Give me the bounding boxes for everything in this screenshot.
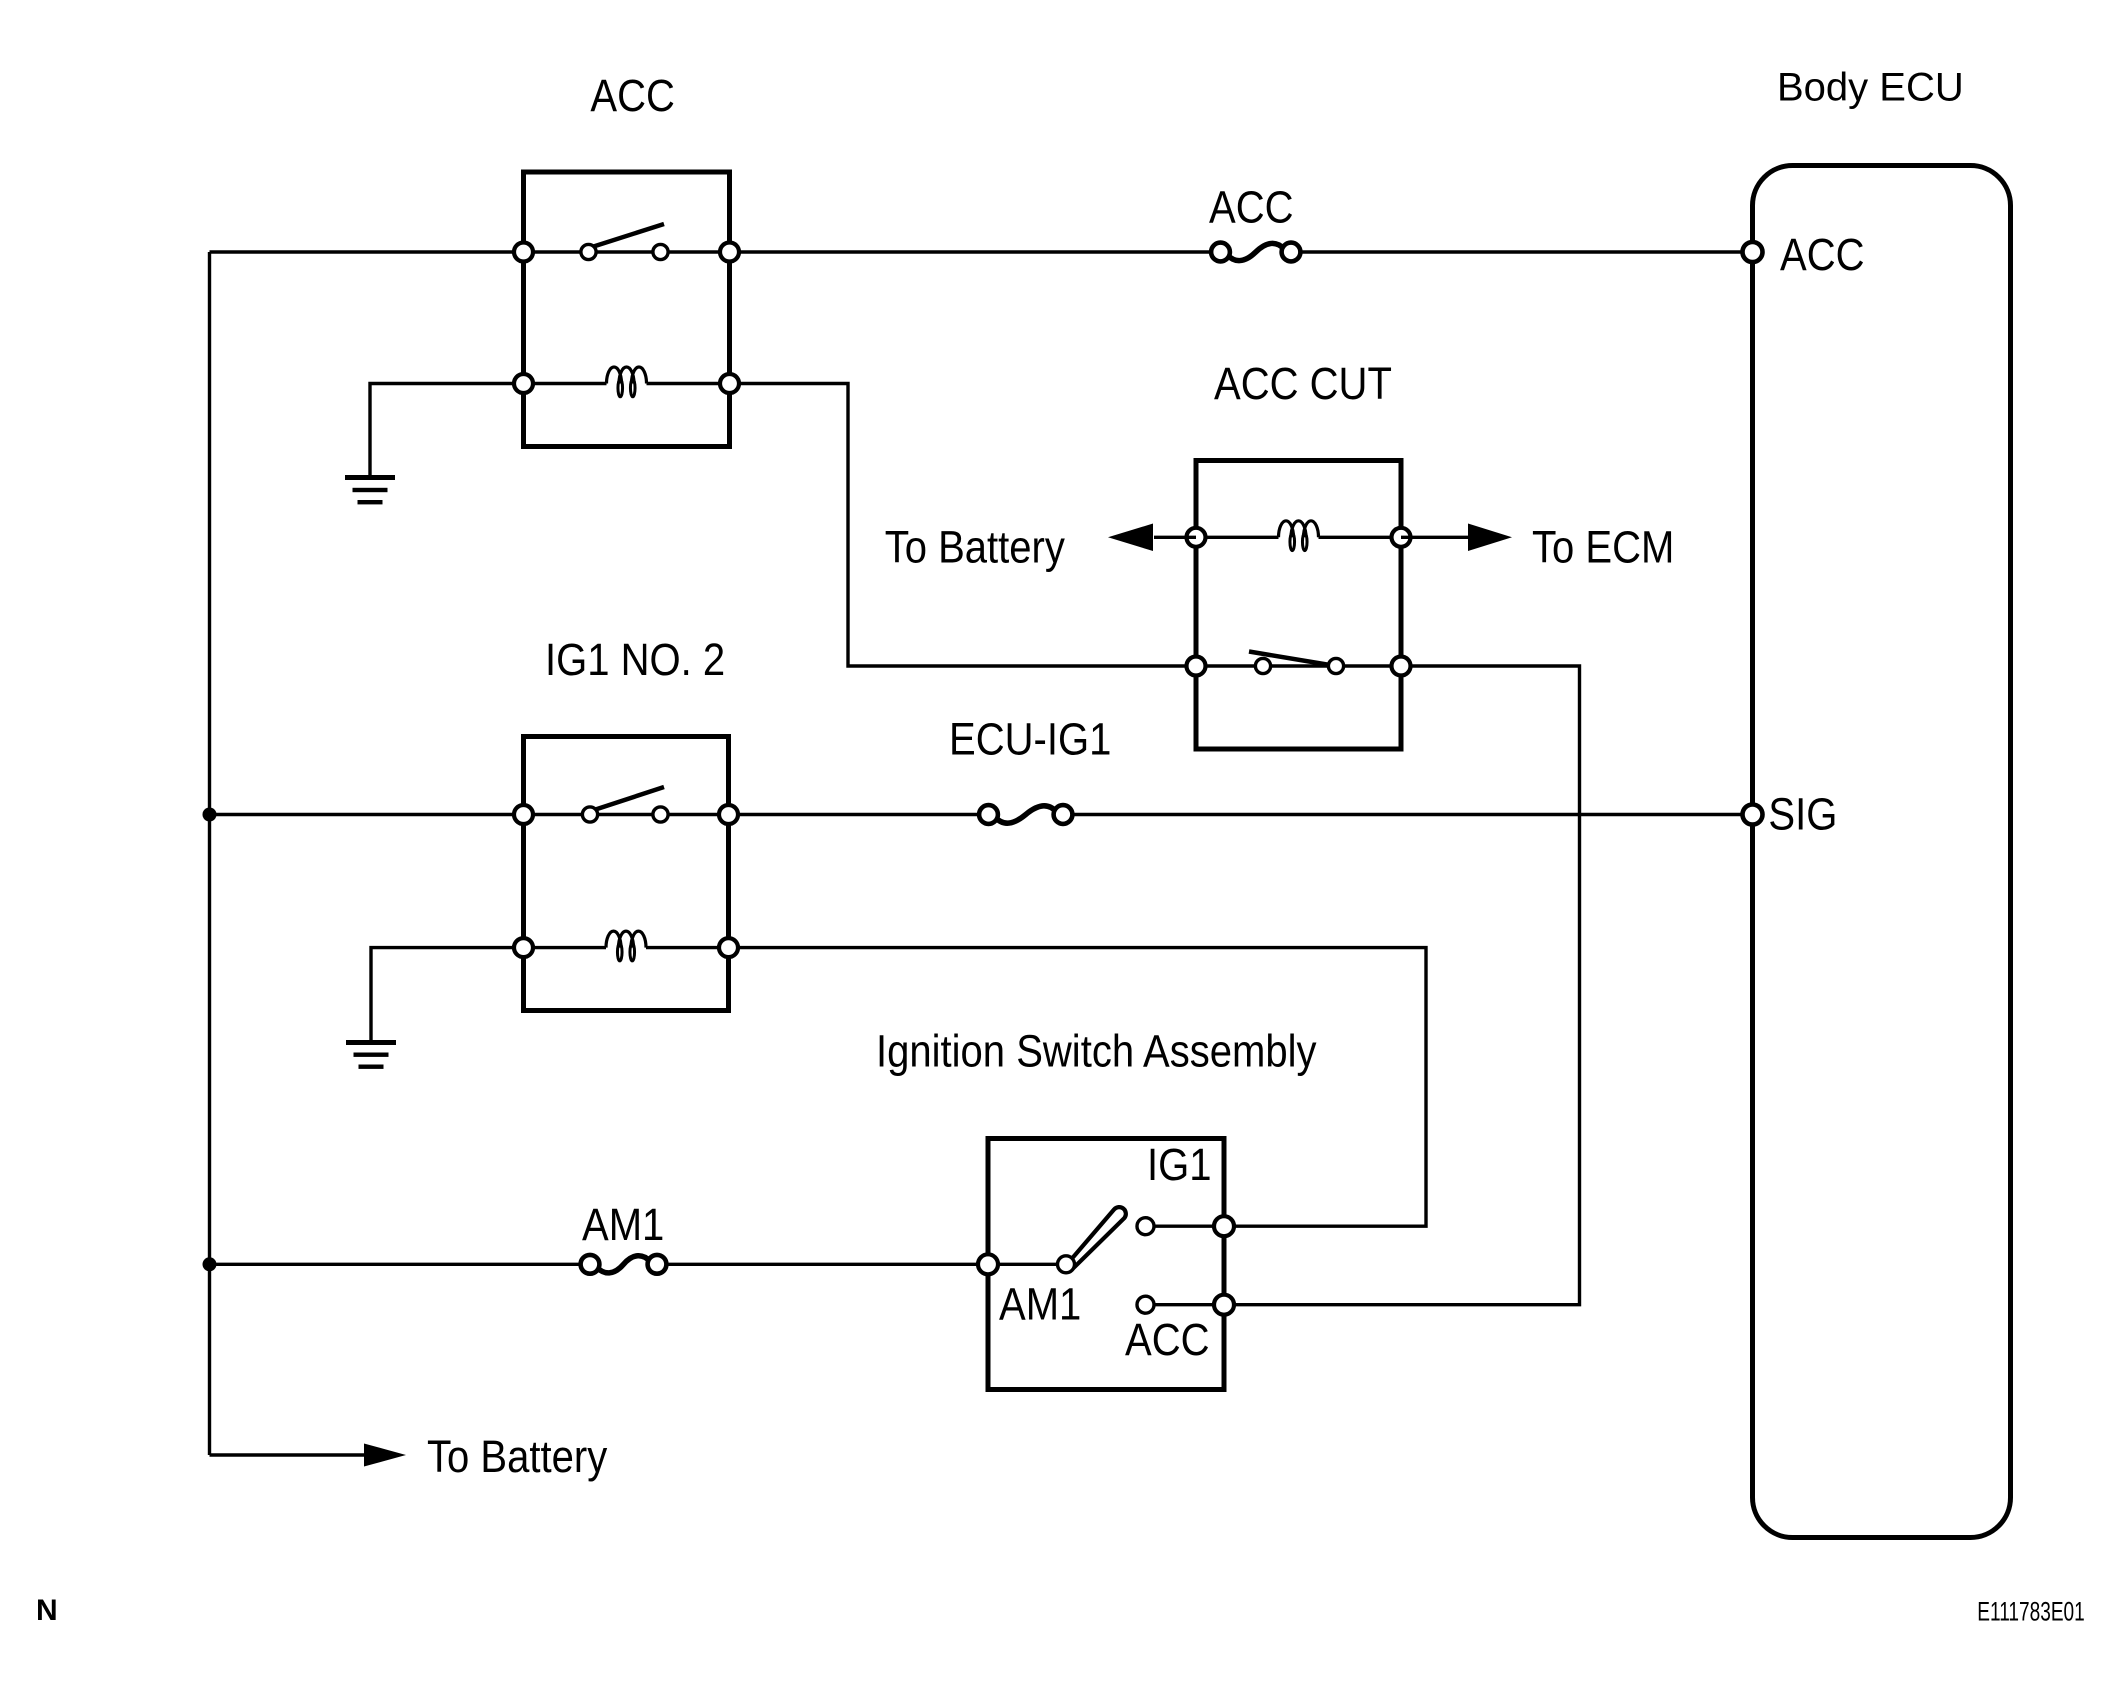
Body ECU: box [1753, 166, 2011, 1538]
relay ACC CUT: terminal coil-left [1187, 528, 1206, 547]
svg-text:ACC: ACC [1125, 1315, 1210, 1366]
wire: SIG line from IG1 NO. 2 relay to ECU-IG1 fuse [729, 813, 980, 816]
relay ACC: box [524, 172, 730, 447]
svg-text:ECU-IG1: ECU-IG1 [949, 714, 1111, 765]
relay IG1 NO. 2: box [524, 737, 729, 1011]
relay ACC: switch contact right [653, 244, 668, 259]
relay ACC CUT: terminal switch-right [1392, 657, 1411, 676]
svg-text:Body ECU: Body ECU [1777, 66, 1964, 110]
svg-text:AM1: AM1 [582, 1200, 664, 1251]
relay ACC: terminal top-left [514, 243, 533, 262]
ignition switch: ACC terminal [1214, 1295, 1234, 1315]
relay ACC: switch blade [592, 224, 664, 247]
label: ECU-IG1 fuse [949, 714, 1111, 765]
label: ACC CUT relay title [1214, 359, 1392, 410]
ignition switch: AM1 contact [1058, 1256, 1075, 1273]
Body ECU: ACC pin [1743, 242, 1763, 262]
label: IG1 pin (ignition switch) [1147, 1140, 1212, 1191]
label: AM1 pin (ignition switch) [999, 1279, 1081, 1330]
ignition switch: IG1 contact wire [1146, 1224, 1225, 1227]
label: To Battery (bottom) [427, 1432, 608, 1483]
wire: left battery bus vertical [208, 252, 211, 1455]
wire: IG1 NO. 2 relay coil to ignition switch IG1 terminal [729, 948, 1427, 1227]
ignition switch assembly: box [988, 1139, 1224, 1390]
wire: ACC relay coil to ground [370, 384, 524, 477]
relay IG1 NO. 2: terminal switch-left [514, 805, 533, 824]
arrow: To Battery (ACC CUT coil left) [1108, 524, 1196, 552]
svg-text:To Battery: To Battery [885, 522, 1066, 573]
label: SIG pin (Body ECU) [1768, 789, 1837, 840]
svg-text:IG1: IG1 [1147, 1140, 1212, 1191]
svg-text:ACC: ACC [590, 71, 675, 122]
label: To ECM [1532, 522, 1674, 573]
relay ACC: terminal coil-left [514, 374, 533, 393]
fuse ECU-IG1: element [979, 805, 1072, 824]
wire: AM1 fuse to ignition switch AM1 terminal [667, 1263, 989, 1266]
relay ACC: coil [607, 367, 647, 397]
svg-text:IG1 NO. 2: IG1 NO. 2 [545, 635, 725, 686]
relay ACC CUT: terminal switch-left [1187, 657, 1206, 676]
ignition switch: ACC contact wire [1146, 1303, 1225, 1306]
relay IG1 NO. 2: switch contact left [582, 807, 597, 822]
relay ACC CUT: coil wire inside [1196, 536, 1401, 539]
relay IG1 NO. 2: terminal switch-right [719, 805, 738, 824]
wire: SIG line from ECU-IG1 fuse to Body ECU SIG pin [1072, 813, 1753, 816]
label: IG1 NO. 2 relay title [545, 635, 725, 686]
ignition switch: lever [1069, 1207, 1126, 1267]
svg-text:SIG: SIG [1768, 789, 1837, 840]
label: ACC fuse [1209, 182, 1294, 233]
relay IG1 NO. 2: terminal coil-left [514, 938, 533, 957]
relay ACC CUT: coil [1279, 521, 1319, 551]
relay ACC CUT: switch wire inside [1196, 664, 1401, 667]
svg-text:E111783E01: E111783E01 [1977, 1596, 2084, 1626]
ignition switch: AM1 terminal [978, 1254, 998, 1274]
relay IG1 NO. 2: coil wire inside [524, 946, 729, 949]
ignition switch: ACC contact [1137, 1296, 1154, 1313]
relay IG1 NO. 2: switch blade [594, 787, 664, 810]
svg-text:AM1: AM1 [999, 1279, 1081, 1330]
relay IG1 NO. 2: switch wire inside [524, 813, 729, 816]
svg-text:To ECM: To ECM [1532, 522, 1674, 573]
label: Body ECU title [1777, 66, 1964, 110]
svg-text:N: N [36, 1594, 58, 1627]
arrow: To ECM (ACC CUT coil right) [1401, 524, 1512, 552]
wire: ACC line from ACC fuse to Body ECU ACC pin [1301, 250, 1753, 253]
Body ECU: SIG pin [1743, 805, 1763, 825]
label: AM1 fuse [582, 1200, 664, 1251]
label: ACC pin (ignition switch) [1125, 1315, 1210, 1366]
label: To Battery (mid) [885, 522, 1066, 573]
label: ACC pin (Body ECU) [1780, 230, 1865, 281]
wire: bus to To Battery arrow (bottom) [210, 1453, 366, 1456]
svg-text:ACC: ACC [1780, 230, 1865, 281]
svg-text:To Battery: To Battery [427, 1432, 608, 1483]
junction: bus / SIG line [203, 808, 217, 822]
wire: ACC CUT switch to ignition switch ACC terminal [1224, 666, 1580, 1305]
label: N (page note) [36, 1594, 58, 1627]
relay ACC CUT: switch contact left [1255, 658, 1270, 673]
ignition switch: IG1 contact [1137, 1218, 1154, 1235]
wire: ACC relay coil to ACC CUT switch [730, 384, 1197, 667]
relay ACC: terminal top-right [720, 243, 739, 262]
relay ACC: switch wire inside [524, 250, 730, 253]
label: ACC relay title [590, 71, 675, 122]
svg-text:Ignition Switch Assembly: Ignition Switch Assembly [876, 1026, 1317, 1077]
label: E111783E01 (figure number) [1977, 1596, 2084, 1626]
relay ACC CUT: switch contact right [1328, 658, 1343, 673]
wire: SIG line from bus to IG1 NO. 2 relay [210, 813, 524, 816]
relay ACC: switch contact left [581, 244, 596, 259]
relay ACC CUT: box [1196, 461, 1401, 750]
fuse AM1: element [581, 1255, 667, 1274]
svg-text:ACC: ACC [1209, 182, 1294, 233]
ground (IG1 NO. 2 relay coil) [346, 1040, 396, 1069]
ignition switch: AM1 wire inside [988, 1263, 1066, 1266]
relay ACC: coil wire inside [524, 382, 730, 385]
ground (ACC relay coil) [345, 475, 395, 504]
arrow: To Battery (bottom) [364, 1444, 406, 1467]
relay ACC: terminal coil-right [720, 374, 739, 393]
label: Ignition Switch Assembly [876, 1026, 1317, 1077]
wire: ACC line from ACC relay to ACC fuse [730, 250, 1212, 253]
relay ACC CUT: terminal coil-right [1392, 528, 1411, 547]
wire: AM1 line from bus to AM1 fuse [210, 1263, 581, 1266]
ignition switch: IG1 terminal [1214, 1216, 1234, 1236]
relay IG1 NO. 2: coil [606, 931, 646, 961]
wire: ACC line from bus to ACC relay [210, 250, 524, 253]
relay ACC CUT: switch blade [1249, 652, 1333, 666]
relay IG1 NO. 2: switch contact right [653, 807, 668, 822]
svg-text:ACC CUT: ACC CUT [1214, 359, 1392, 410]
fuse ACC: element [1211, 243, 1300, 262]
relay IG1 NO. 2: terminal coil-right [719, 938, 738, 957]
wire: IG1 NO. 2 relay coil to ground [371, 948, 524, 1041]
junction: bus / AM1 line [203, 1257, 217, 1271]
